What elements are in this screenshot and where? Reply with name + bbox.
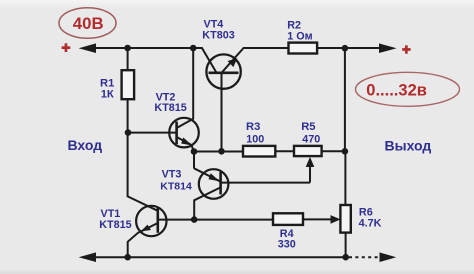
transistor VT3: [194, 168, 228, 219]
svg-text:KT815: KT815: [99, 219, 131, 231]
wire: R4 right lead to R6 wiper arrow: [303, 218, 334, 220]
wire: node to R3 left lead: [194, 151, 243, 153]
wire: node to R4 left lead: [194, 219, 273, 221]
wire: VT3 base lead to R5 wiper: [221, 182, 310, 184]
svg-text:R5: R5: [301, 121, 315, 133]
wire: R1 bottom lead to VT2 base node: [127, 99, 129, 132]
svg-text:VT3: VT3: [162, 169, 182, 181]
svg-text:KT803: KT803: [202, 30, 234, 42]
wire: bottom rail solid segment: [92, 256, 346, 258]
svg-text:40В: 40В: [73, 14, 104, 33]
wire: R5 right lead to right column: [322, 150, 345, 152]
wire: R6 bottom lead: [345, 233, 347, 258]
potentiometer R5: [294, 146, 322, 167]
svg-text:Вход: Вход: [68, 137, 103, 153]
plus terminal (top left): [62, 43, 71, 52]
wire: R6 top lead: [344, 151, 346, 205]
wire: VT3 emitter vertical from node: [193, 152, 195, 169]
resistor R2: [289, 43, 318, 54]
svg-text:Выход: Выход: [385, 137, 432, 153]
node: top rail / R1: [124, 45, 131, 52]
wire: R5 wiper stem: [309, 166, 311, 183]
wire: VT4 base lead down to node: [221, 73, 223, 152]
node: VT4 base / R3 line: [218, 148, 225, 155]
wire: top rail left segment with input arrow: [92, 47, 202, 49]
svg-text:0.....32в: 0.....32в: [366, 82, 427, 100]
svg-text:VT1: VT1: [101, 208, 121, 220]
output arrow (bottom right): [380, 252, 397, 262]
input arrow (bottom left): [79, 252, 96, 262]
node: R1 / VT2 base: [125, 129, 132, 136]
svg-text:R6: R6: [359, 206, 373, 218]
svg-text:KT814: KT814: [160, 180, 192, 192]
resistor R3: [243, 146, 275, 157]
transistor VT2: [169, 48, 199, 152]
transistor VT1: [128, 197, 167, 258]
svg-text:100: 100: [246, 133, 264, 145]
wire: top rail right segment (R2 to output arrow): [317, 47, 381, 49]
wire: top rail right segment (VT4 emitter to R2): [243, 47, 289, 49]
wire: left column from base node down to VT1 collector: [127, 133, 129, 198]
svg-text:1К: 1К: [101, 88, 114, 100]
node: R5 / output column: [342, 148, 349, 155]
wire: right column from R2 node down to R5 node: [344, 48, 346, 151]
resistor R4: [273, 213, 303, 225]
node: VT2 emitter / VT3 emitter / R3: [191, 148, 198, 155]
svg-text:330: 330: [278, 239, 296, 251]
svg-text:R3: R3: [246, 121, 260, 133]
input voltage oval 40В: [59, 8, 116, 39]
node: bottom rail / R6: [342, 254, 349, 261]
node: VT1 base / VT3 collector / R4: [191, 216, 198, 223]
svg-text:470: 470: [302, 133, 320, 145]
node: top rail / VT2 collector: [190, 45, 197, 52]
resistor R1: [122, 70, 135, 99]
svg-text:4.7K: 4.7K: [359, 218, 382, 230]
wire: R3 to R5 link: [275, 150, 294, 152]
input arrow (top left): [79, 43, 96, 53]
potentiometer R6: [331, 205, 351, 233]
plus terminal (top right): [402, 45, 410, 53]
node: bottom rail / VT1 emitter: [124, 254, 131, 261]
wire: VT1 base lead: [158, 219, 194, 221]
output arrow (top right): [379, 43, 397, 53]
wire: bottom rail dashed segment to output arrow: [349, 256, 381, 258]
wire: R1 top lead: [127, 48, 129, 70]
wire: VT2 base lead: [128, 132, 177, 134]
svg-text:1 Ом: 1 Ом: [287, 31, 312, 43]
output voltage oval 0.....32в: [356, 72, 460, 106]
transistor VT4: [202, 47, 245, 89]
node: top rail / output column: [342, 45, 349, 52]
svg-text:KT815: KT815: [154, 102, 186, 114]
